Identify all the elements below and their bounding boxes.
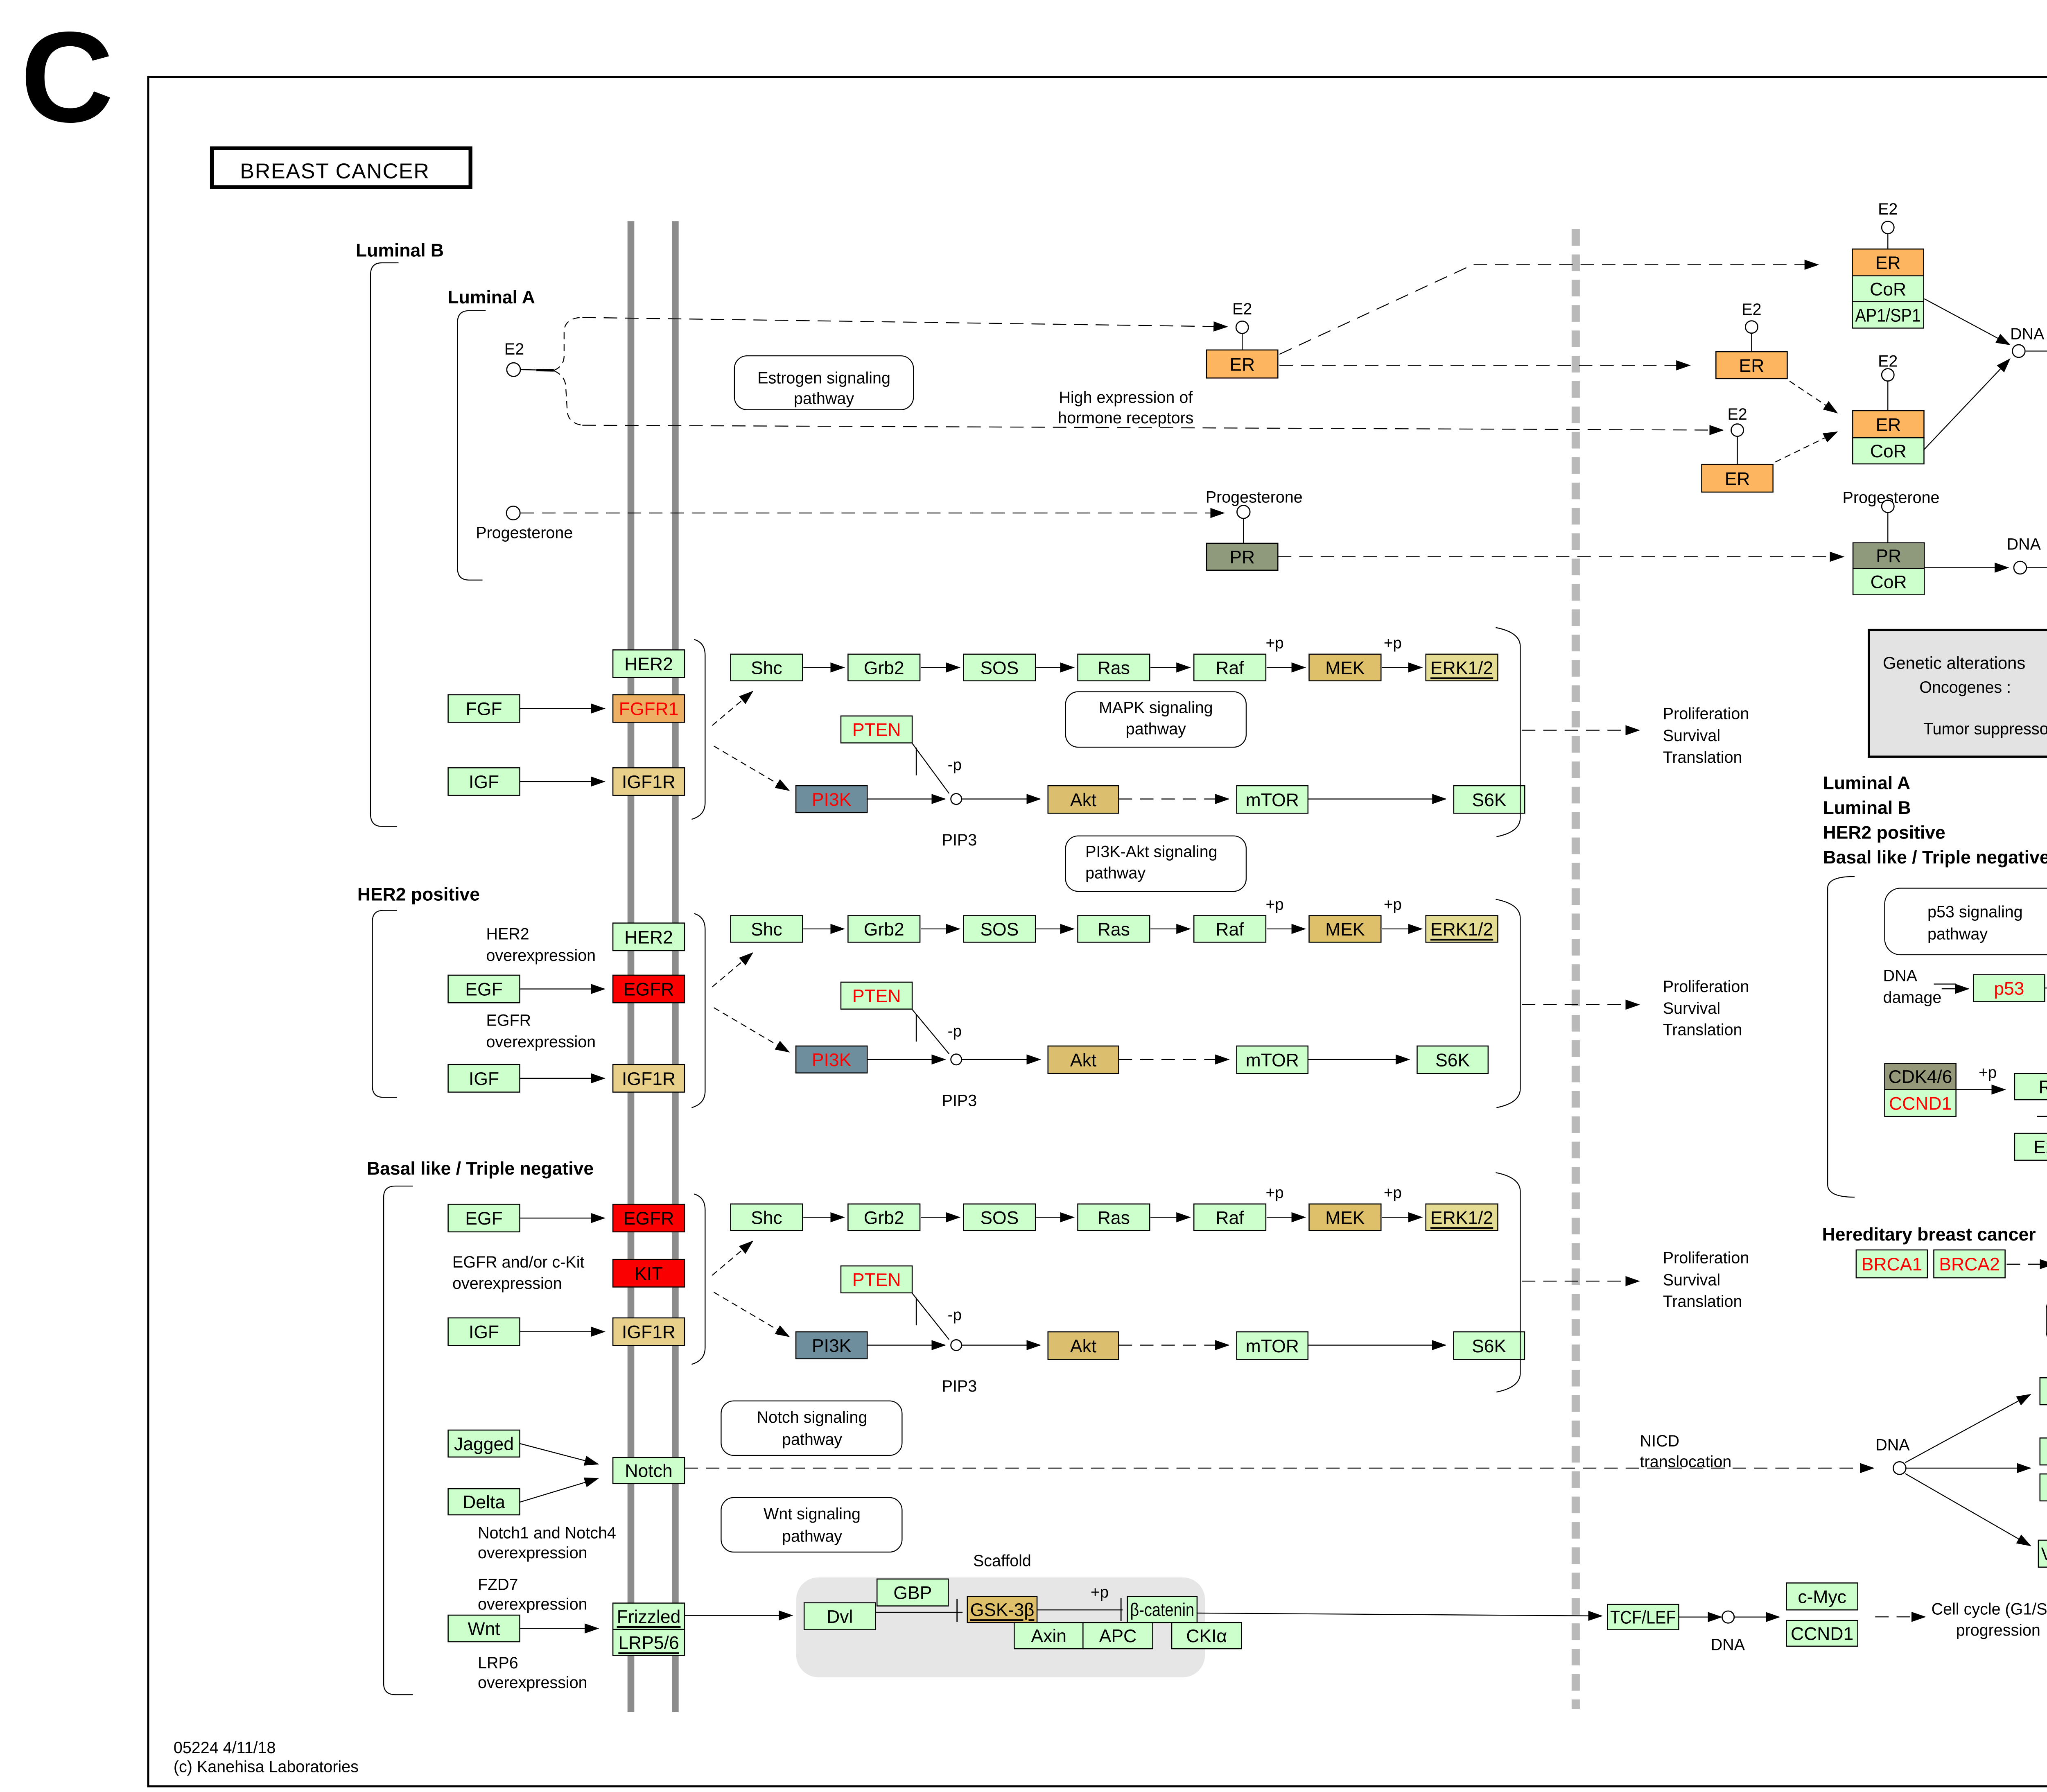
svg-text:CCND1: CCND1 (1889, 1094, 1952, 1114)
svg-text:E2: E2 (1232, 300, 1252, 318)
svg-text:DNA: DNA (2010, 325, 2045, 343)
svg-text:CCND1: CCND1 (1791, 1624, 1853, 1644)
svg-text:Tumor suppressors :: Tumor suppressors : (1923, 720, 2047, 738)
svg-text:S6K: S6K (1472, 1336, 1506, 1356)
svg-text:IGF: IGF (469, 1069, 499, 1089)
svg-text:Survival: Survival (1663, 727, 1720, 745)
svg-text:Dvl: Dvl (827, 1607, 853, 1627)
svg-text:E2: E2 (1742, 301, 1761, 319)
svg-text:Grb2: Grb2 (864, 1208, 904, 1228)
svg-text:ERK1/2: ERK1/2 (1430, 658, 1493, 678)
svg-text:CoR: CoR (1870, 441, 1907, 461)
svg-text:hormone receptors: hormone receptors (1058, 409, 1193, 427)
svg-text:ER: ER (1229, 355, 1255, 375)
svg-text:E2: E2 (504, 340, 524, 358)
svg-text:overexpression: overexpression (452, 1275, 562, 1293)
svg-text:E2: E2 (1727, 405, 1747, 423)
svg-text:EGFR: EGFR (486, 1012, 531, 1030)
svg-text:DNA: DNA (1875, 1436, 1910, 1454)
svg-text:Shc: Shc (751, 658, 782, 678)
svg-text:Raf: Raf (1216, 920, 1244, 940)
svg-text:BREAST CANCER: BREAST CANCER (240, 159, 429, 183)
svg-text:-p: -p (948, 1306, 962, 1324)
svg-text:IGF1R: IGF1R (622, 772, 676, 792)
svg-text:Luminal A: Luminal A (447, 287, 535, 307)
svg-text:SOS: SOS (980, 920, 1019, 940)
svg-text:S6K: S6K (1435, 1051, 1470, 1071)
svg-text:LRP6: LRP6 (478, 1654, 518, 1672)
svg-text:p53 signaling: p53 signaling (1927, 903, 2023, 921)
svg-text:progression: progression (1956, 1621, 2040, 1639)
svg-text:EGF: EGF (465, 980, 502, 1000)
svg-text:DNA: DNA (1883, 967, 1918, 985)
svg-text:+p: +p (1384, 896, 1402, 913)
svg-text:HER2: HER2 (624, 927, 673, 947)
svg-text:PTEN: PTEN (852, 1270, 901, 1290)
svg-text:Grb2: Grb2 (864, 658, 904, 678)
svg-text:damage: damage (1883, 988, 1942, 1006)
svg-text:C: C (20, 5, 113, 149)
svg-text:ER: ER (1876, 415, 1901, 435)
svg-text:ER: ER (1725, 469, 1750, 489)
svg-text:Notch1 and Notch4: Notch1 and Notch4 (478, 1524, 616, 1542)
svg-text:EGF: EGF (465, 1209, 502, 1229)
svg-text:+p: +p (1266, 896, 1284, 913)
svg-text:CKIα: CKIα (1186, 1626, 1227, 1646)
svg-text:+p: +p (1384, 1184, 1402, 1202)
svg-text:EGFR: EGFR (624, 980, 674, 1000)
svg-text:IGF1R: IGF1R (622, 1322, 676, 1342)
svg-text:BRCA1: BRCA1 (1862, 1254, 1922, 1275)
svg-text:Ras: Ras (1098, 920, 1130, 940)
svg-text:PTEN: PTEN (852, 720, 901, 740)
svg-text:overexpression: overexpression (478, 1544, 587, 1562)
svg-text:Luminal B: Luminal B (356, 240, 444, 260)
svg-text:Translation: Translation (1663, 748, 1742, 766)
svg-text:Shc: Shc (751, 920, 782, 940)
svg-text:Axin: Axin (1031, 1626, 1066, 1646)
svg-text:PIP3: PIP3 (942, 1091, 977, 1110)
svg-text:p53: p53 (1994, 979, 2024, 999)
svg-text:IGF1R: IGF1R (622, 1069, 676, 1089)
svg-text:PIP3: PIP3 (942, 1377, 977, 1395)
svg-text:KIT: KIT (635, 1264, 663, 1284)
svg-text:-p: -p (948, 756, 962, 774)
svg-text:Oncogenes :: Oncogenes : (1919, 678, 2011, 696)
svg-text:pathway: pathway (1085, 864, 1146, 882)
svg-text:FGFR1: FGFR1 (619, 699, 679, 719)
svg-text:Proliferation: Proliferation (1663, 978, 1749, 996)
svg-text:EGFR: EGFR (624, 1209, 674, 1229)
svg-text:Frizzled: Frizzled (617, 1607, 681, 1627)
svg-text:ERK1/2: ERK1/2 (1430, 1208, 1493, 1228)
svg-text:Survival: Survival (1663, 999, 1720, 1017)
svg-text:VEGFR3: VEGFR3 (2041, 1544, 2047, 1564)
svg-text:Hereditary breast cancer: Hereditary breast cancer (1822, 1225, 2036, 1245)
svg-text:Ras: Ras (1098, 658, 1130, 678)
svg-text:High expression of: High expression of (1059, 389, 1193, 407)
svg-text:ERK1/2: ERK1/2 (1430, 920, 1493, 940)
svg-text:HER2 positive: HER2 positive (357, 884, 480, 904)
svg-text:SOS: SOS (980, 658, 1019, 678)
svg-text:Raf: Raf (1216, 1208, 1244, 1228)
svg-text:MEK: MEK (1325, 658, 1365, 678)
svg-text:LRP5/6: LRP5/6 (618, 1633, 679, 1653)
svg-text:HER2: HER2 (486, 925, 529, 943)
svg-text:Scaffold: Scaffold (973, 1552, 1031, 1570)
svg-text:Proliferation: Proliferation (1663, 1249, 1749, 1267)
svg-text:PI3K: PI3K (812, 790, 852, 810)
svg-text:Rb: Rb (2038, 1077, 2047, 1097)
svg-text:AP1/SP1: AP1/SP1 (1855, 305, 1921, 325)
svg-text:Shc: Shc (751, 1208, 782, 1228)
svg-text:Notch: Notch (625, 1461, 672, 1481)
svg-text:Akt: Akt (1070, 1336, 1097, 1356)
svg-text:pathway: pathway (794, 390, 854, 408)
svg-text:+p: +p (1266, 634, 1284, 652)
svg-text:MEK: MEK (1325, 920, 1365, 940)
svg-text:mTOR: mTOR (1246, 1336, 1299, 1356)
svg-text:Luminal B: Luminal B (1823, 798, 1911, 818)
svg-text:CDK4/6: CDK4/6 (1889, 1067, 1952, 1087)
svg-text:GSK-3β: GSK-3β (970, 1600, 1035, 1620)
svg-text:Grb2: Grb2 (864, 920, 904, 940)
svg-text:DNA: DNA (1711, 1636, 1745, 1654)
svg-text:Translation: Translation (1663, 1293, 1742, 1311)
svg-text:Basal like / Triple negative: Basal like / Triple negative (1823, 847, 2047, 868)
svg-text:PR: PR (1229, 547, 1255, 567)
svg-text:mTOR: mTOR (1246, 1051, 1299, 1071)
svg-text:PI3K-Akt signaling: PI3K-Akt signaling (1085, 843, 1217, 861)
svg-text:+p: +p (1384, 634, 1402, 652)
svg-text:HER2 positive: HER2 positive (1823, 823, 1945, 843)
svg-text:overexpression: overexpression (478, 1595, 587, 1613)
svg-text:CoR: CoR (1871, 572, 1907, 592)
svg-text:+p: +p (1091, 1584, 1109, 1601)
svg-text:ER: ER (1875, 253, 1901, 273)
svg-text:FGF: FGF (466, 699, 502, 719)
svg-text:Progesterone: Progesterone (1206, 488, 1303, 506)
svg-text:overexpression: overexpression (486, 1033, 596, 1051)
svg-text:PI3K: PI3K (812, 1336, 852, 1356)
svg-text:CoR: CoR (1870, 279, 1906, 299)
svg-text:Akt: Akt (1070, 1051, 1097, 1071)
svg-text:Proliferation: Proliferation (1663, 705, 1749, 723)
svg-text:Ras: Ras (1098, 1208, 1130, 1228)
svg-text:Jagged: Jagged (454, 1434, 514, 1454)
svg-text:Raf: Raf (1216, 658, 1244, 678)
svg-text:overexpression: overexpression (478, 1674, 587, 1692)
svg-text:GBP: GBP (893, 1583, 932, 1603)
svg-text:PR: PR (1876, 546, 1901, 566)
svg-text:E2: E2 (1878, 200, 1898, 218)
svg-text:pathway: pathway (782, 1527, 842, 1545)
svg-text:(c) Kanehisa Laboratories: (c) Kanehisa Laboratories (174, 1758, 359, 1776)
svg-text:Progesterone: Progesterone (476, 524, 573, 542)
svg-text:β-catenin: β-catenin (1130, 1600, 1194, 1620)
svg-text:EGFR and/or c-Kit: EGFR and/or c-Kit (452, 1253, 584, 1271)
svg-text:IGF: IGF (469, 772, 499, 792)
svg-text:Wnt: Wnt (468, 1619, 500, 1639)
svg-text:Genetic alterations: Genetic alterations (1883, 653, 2025, 673)
svg-text:IGF: IGF (469, 1322, 499, 1342)
svg-text:+p: +p (1266, 1184, 1284, 1202)
svg-text:overexpression: overexpression (486, 947, 596, 965)
svg-text:-p: -p (948, 1022, 962, 1040)
svg-text:BRCA2: BRCA2 (1939, 1254, 2000, 1275)
svg-text:Survival: Survival (1663, 1271, 1720, 1289)
svg-text:FZD7: FZD7 (478, 1575, 518, 1593)
svg-text:pathway: pathway (1927, 925, 1988, 943)
svg-text:Delta: Delta (463, 1492, 505, 1512)
svg-text:MAPK signaling: MAPK signaling (1099, 698, 1213, 716)
svg-text:Basal like / Triple negative: Basal like / Triple negative (367, 1159, 594, 1179)
svg-text:c-Myc: c-Myc (1798, 1587, 1846, 1607)
svg-text:+p: +p (1979, 1064, 1997, 1081)
svg-text:Luminal A: Luminal A (1823, 773, 1910, 793)
svg-text:Notch signaling: Notch signaling (757, 1408, 868, 1426)
svg-text:E2F: E2F (2033, 1137, 2047, 1157)
svg-text:Estrogen signaling: Estrogen signaling (757, 369, 890, 387)
svg-text:SOS: SOS (980, 1208, 1019, 1228)
svg-text:E2: E2 (1878, 353, 1898, 371)
svg-text:DNA: DNA (2007, 536, 2041, 554)
svg-text:Cell cycle (G1/S): Cell cycle (G1/S) (1932, 1600, 2047, 1618)
svg-text:MEK: MEK (1325, 1208, 1365, 1228)
svg-text:PTEN: PTEN (852, 986, 901, 1006)
svg-text:PI3K: PI3K (812, 1050, 852, 1070)
svg-text:mTOR: mTOR (1246, 790, 1299, 810)
svg-text:Wnt signaling: Wnt signaling (764, 1505, 861, 1523)
svg-text:APC: APC (1099, 1626, 1137, 1646)
svg-text:Akt: Akt (1070, 790, 1097, 810)
svg-text:pathway: pathway (782, 1430, 842, 1449)
svg-text:S6K: S6K (1472, 790, 1507, 810)
svg-text:PIP3: PIP3 (942, 831, 977, 849)
svg-text:05224 4/11/18: 05224 4/11/18 (174, 1739, 276, 1757)
svg-text:pathway: pathway (1126, 720, 1186, 738)
svg-text:ER: ER (1739, 356, 1765, 376)
svg-text:NICD: NICD (1640, 1432, 1679, 1450)
svg-text:Translation: Translation (1663, 1021, 1742, 1039)
svg-text:HER2: HER2 (624, 654, 673, 674)
svg-text:TCF/LEF: TCF/LEF (1610, 1608, 1676, 1628)
